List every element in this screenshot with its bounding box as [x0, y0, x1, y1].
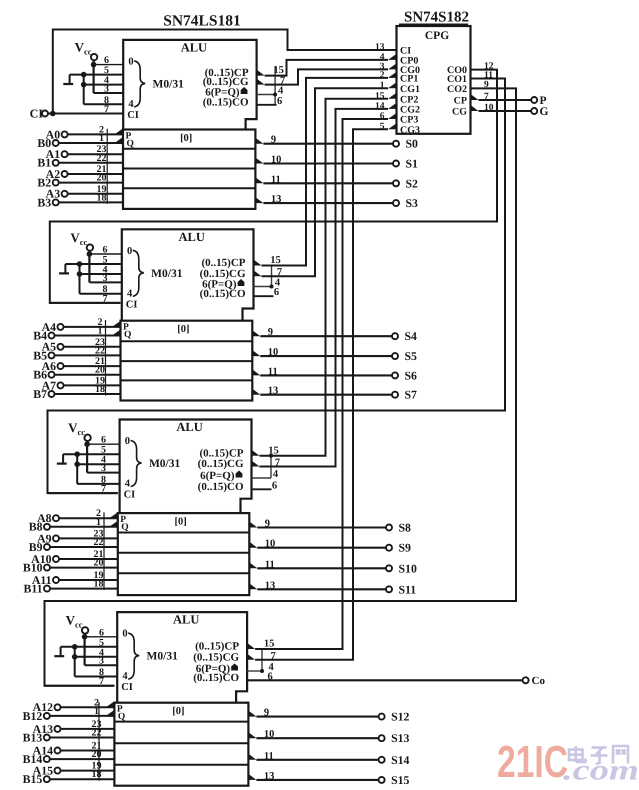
terminal A13 — [55, 726, 61, 732]
svg-text:1: 1 — [96, 517, 101, 528]
junction Vcc pin6 — [91, 62, 97, 68]
U4 wire pin4 — [75, 656, 118, 658]
svg-text:CP1: CP1 — [400, 74, 418, 85]
svg-text:S4: S4 — [405, 329, 418, 343]
U4 wire pin3 — [85, 664, 118, 666]
U2 wire pin7 CI from frame — [50, 302, 121, 304]
U3 wire pin4 — [77, 463, 119, 465]
U4 data box outline — [114, 703, 248, 786]
U4 pin4 junction dot — [260, 669, 264, 673]
svg-text:S15: S15 — [391, 773, 409, 787]
U4 output wedge row 3 — [248, 754, 256, 760]
svg-text:S10: S10 — [399, 561, 417, 575]
U1 data box outline — [123, 130, 255, 209]
svg-text:4: 4 — [125, 479, 131, 490]
svg-text:Vcc: Vcc — [68, 420, 85, 437]
svg-text:CG1: CG1 — [400, 84, 420, 95]
wire U4 row 1 to terminal S12 — [256, 716, 379, 718]
junction pin5 rail — [74, 451, 80, 457]
title underline — [399, 23, 468, 25]
U4 pin4 stub — [247, 670, 262, 672]
U4 digits column tick — [98, 702, 100, 781]
U2 output wedge row 4 — [252, 389, 260, 395]
U2 output wedge row 1 — [252, 330, 260, 336]
wire U4 row 2 to terminal S13 — [256, 737, 379, 739]
terminal B0 — [53, 140, 59, 146]
svg-text:4: 4 — [122, 671, 128, 682]
U2 data box divider 1 — [121, 340, 253, 342]
U4 data box divider 1 — [114, 721, 248, 723]
ground symbol U4 — [54, 655, 64, 657]
svg-text:S0: S0 — [406, 137, 419, 151]
wire A1 to U1 pin 23 — [67, 153, 123, 155]
U1 wire pin8 — [84, 103, 124, 105]
U2 Q input wedge — [112, 330, 121, 336]
wire CPG CG output to terminal G — [479, 110, 532, 112]
terminal S4 — [392, 333, 398, 339]
svg-text:[0]: [0] — [180, 133, 192, 144]
terminal P — [531, 97, 537, 103]
U2 pin4 riser — [271, 266, 273, 287]
svg-text:S11: S11 — [399, 582, 417, 596]
terminal B12 — [44, 713, 50, 719]
svg-text:[0]: [0] — [177, 324, 189, 335]
U3 pin4 riser — [270, 456, 272, 478]
CPG input wedge CP2 — [388, 93, 397, 99]
wire U1 row 1 to terminal S0 — [263, 143, 393, 145]
U4 gnd riser — [60, 647, 62, 656]
wire A9 to U3 pin 23 — [59, 537, 118, 539]
IC U4 ALU control box outline — [117, 612, 247, 703]
wire A7 to U2 pin 19 — [63, 384, 120, 386]
IC U2 ALU control box outline — [122, 229, 254, 320]
U2 wire pin6 — [89, 253, 121, 255]
wire A14 to U4 pin 21 — [60, 750, 114, 752]
svg-text:18: 18 — [92, 769, 102, 780]
terminal A10 — [53, 556, 59, 562]
U1 output wedge row 3 — [255, 177, 263, 183]
wire B2 to U1 pin 20 — [58, 182, 123, 184]
U3 pin4 junction dot — [269, 454, 273, 458]
terminal A8 — [53, 515, 59, 521]
wire B13 to U4 pin 22 — [49, 737, 114, 739]
wire A8 to U3 pin 2 — [59, 517, 118, 519]
terminal S15 — [379, 777, 385, 783]
terminal S0 — [393, 141, 399, 147]
CPG input wedge CG3 — [388, 123, 397, 129]
svg-text:22: 22 — [97, 153, 107, 164]
terminal A4 — [58, 324, 64, 330]
svg-text:18: 18 — [97, 192, 107, 203]
U2 Vcc rail vertical — [88, 251, 90, 283]
svg-text:(0..15)CO: (0..15)CO — [193, 672, 239, 684]
terminal B2 — [53, 180, 59, 186]
terminal A12 — [55, 704, 61, 710]
svg-text:S3: S3 — [406, 196, 419, 210]
terminal G — [531, 108, 537, 114]
wire U3 row 4 to terminal S11 — [257, 588, 386, 590]
terminal B3 — [53, 199, 59, 205]
wire A0 to U1 pin 2 — [67, 133, 123, 135]
U1 Q input wedge — [115, 137, 124, 143]
U1 pin4 stub — [257, 94, 276, 96]
svg-text:4: 4 — [127, 288, 133, 299]
svg-text:Q: Q — [118, 712, 125, 722]
svg-text:ALU: ALU — [173, 613, 199, 627]
U3 digits column tick — [103, 512, 105, 590]
U3 data box divider 2 — [118, 552, 250, 554]
U1 data box divider 2 — [123, 168, 255, 170]
svg-text:CI: CI — [121, 682, 133, 693]
svg-text:B12: B12 — [23, 709, 43, 723]
terminal S1 — [393, 161, 399, 167]
terminal A15 — [55, 768, 61, 774]
U2 second rail vertical — [79, 264, 81, 294]
wire CI terminal to ALU1 pin7 and CPG pin13 — [48, 113, 123, 115]
svg-text:22: 22 — [92, 728, 102, 739]
U2 P input wedge — [112, 321, 121, 327]
U2 wire pin4 — [80, 273, 122, 275]
wire B7 to U2 pin 18 — [54, 393, 120, 395]
svg-text:1: 1 — [98, 326, 103, 337]
U2 pin4 stub — [254, 286, 272, 288]
svg-text:7: 7 — [103, 293, 108, 304]
svg-text:S13: S13 — [391, 731, 409, 745]
svg-text:Vcc: Vcc — [75, 39, 92, 56]
wire CPG CO2 to ALU4 CI (net Cz) — [45, 88, 517, 685]
U1 gnd riser — [69, 75, 71, 84]
svg-text:(0..15)CO: (0..15)CO — [200, 288, 246, 300]
U3 data box outline — [118, 513, 250, 595]
wire U2 row 3 to terminal S6 — [260, 374, 392, 376]
U1 data box divider 3 — [123, 187, 255, 189]
svg-text:B7: B7 — [33, 387, 47, 401]
svg-text:22: 22 — [94, 537, 104, 548]
terminal S3 — [393, 200, 399, 206]
wire U2 CG to CPG CG1 — [262, 88, 389, 276]
svg-text:B15: B15 — [23, 772, 43, 786]
CPG input wedge CP0 — [388, 54, 397, 60]
svg-text:20: 20 — [95, 365, 105, 376]
U3 data box divider 1 — [118, 532, 250, 534]
wire A2 to U1 pin 21 — [67, 173, 123, 175]
U2 wire pin3 — [89, 281, 121, 283]
svg-text:6: 6 — [277, 96, 282, 107]
U1 CO stub — [257, 104, 277, 106]
svg-text:ALU: ALU — [178, 230, 204, 244]
U1 output wedge row 1 — [255, 138, 263, 144]
svg-text:CG3: CG3 — [400, 125, 420, 136]
svg-text:G: G — [540, 106, 549, 118]
svg-text:CI: CI — [30, 107, 44, 121]
U3 CG output wedge — [252, 461, 260, 467]
svg-text:CI: CI — [127, 110, 139, 121]
U2 wire pin8 — [80, 293, 122, 295]
U4 CP output wedge — [247, 643, 255, 649]
CPG output wedge — [471, 105, 479, 111]
terminal B15 — [44, 776, 50, 782]
U4 wire pin7 CI from frame — [45, 685, 115, 687]
U4 wire pin6 — [85, 636, 118, 638]
svg-text:B13: B13 — [23, 730, 43, 744]
wire A13 to U4 pin 23 — [60, 728, 114, 730]
wire B3 to U1 pin 18 — [58, 201, 123, 203]
terminal B10 — [44, 565, 50, 571]
U1 P=Q open-collector symbol — [241, 87, 248, 94]
wire U2 CP to CPG CP1 — [262, 78, 389, 266]
U2 data box outline — [121, 321, 253, 401]
svg-text:7: 7 — [99, 676, 104, 687]
CPG input wedge CP3 — [388, 113, 397, 119]
svg-text:1: 1 — [94, 706, 99, 717]
terminal A5 — [58, 344, 64, 350]
terminal S13 — [379, 735, 385, 741]
terminal S5 — [392, 353, 398, 359]
junction Vcc pin6 — [87, 251, 93, 257]
CPG input wedge CG1 — [388, 82, 397, 88]
CPG input wedge CG2 — [388, 103, 397, 109]
junction pin5 rail — [81, 72, 87, 78]
svg-text:22: 22 — [95, 345, 105, 356]
wire U4 CP to CPG CP3 — [255, 119, 388, 649]
wire A3 to U1 pin 19 — [67, 193, 123, 195]
terminal S12 — [379, 714, 385, 720]
U2 CP output wedge — [254, 260, 262, 266]
wire B0 to U1 pin 1 — [58, 142, 123, 144]
svg-text:CO2: CO2 — [447, 84, 467, 95]
wire U3 row 3 to terminal S10 — [257, 567, 386, 569]
svg-text:M0/31: M0/31 — [151, 268, 183, 280]
svg-text:3: 3 — [103, 273, 108, 284]
U4 Vcc terminal — [82, 627, 88, 633]
wire CPG CO0 to ALU2 CI (net Cx) — [50, 70, 497, 303]
CPG input wedge CP1 — [388, 72, 397, 78]
terminal S2 — [393, 180, 399, 186]
svg-text:Co: Co — [532, 675, 546, 687]
svg-text:15: 15 — [270, 255, 281, 266]
junction pin4 rail — [72, 654, 78, 660]
wire U4 row 3 to terminal S14 — [256, 759, 379, 761]
svg-text:Vcc: Vcc — [70, 230, 87, 247]
terminal A2 — [62, 171, 68, 177]
U4 CG output wedge — [247, 654, 255, 660]
terminal A6 — [58, 363, 64, 369]
U1 CG output wedge — [257, 79, 265, 85]
wire CPG CP output to terminal P — [479, 99, 532, 101]
U2 data box divider 2 — [121, 360, 253, 362]
svg-text:CI: CI — [126, 299, 138, 310]
wire A12 to U4 pin 2 — [60, 706, 114, 708]
U3 wire pin8 — [77, 483, 119, 485]
terminal A9 — [53, 535, 59, 541]
terminal CI (carry input) — [42, 111, 48, 117]
wire U4 CG to CPG CG3 — [255, 129, 388, 660]
U1 pin4 junction dot — [273, 93, 277, 97]
junction Vcc pin6 — [84, 441, 90, 447]
wire B1 to U1 pin 22 — [58, 162, 123, 164]
terminal B4 — [49, 333, 55, 339]
wire U3 CP to CPG CP2 — [260, 99, 389, 456]
svg-text:S8: S8 — [399, 521, 412, 535]
CPG output wedge — [471, 94, 479, 100]
terminal Co — [523, 677, 529, 683]
svg-text:20: 20 — [94, 558, 104, 569]
U3 data box divider 3 — [118, 572, 250, 574]
U1 wire pin3 — [94, 92, 124, 94]
svg-text:4: 4 — [273, 469, 279, 480]
wire U3 CG to CPG CG2 — [260, 109, 389, 467]
wire U1 CG to CPG CG0 — [265, 69, 388, 84]
svg-text:M0/31: M0/31 — [149, 458, 181, 470]
terminal S7 — [392, 392, 398, 398]
U2 output wedge row 3 — [252, 369, 260, 375]
U4 output wedge row 1 — [248, 711, 256, 717]
U4 P input wedge — [106, 701, 115, 707]
svg-text:SN74S182: SN74S182 — [404, 10, 469, 26]
wire A10 to U3 pin 21 — [59, 558, 118, 560]
ground symbol U3 — [57, 463, 67, 465]
wire B5 to U2 pin 22 — [54, 354, 120, 356]
U2 pin4 junction dot — [270, 285, 274, 289]
junction pin4 rail — [74, 461, 80, 467]
U4 second rail vertical — [74, 647, 76, 677]
U2 P=Q open-collector symbol — [238, 279, 245, 286]
watermark dianziwang (CJK strokes) — [569, 746, 586, 762]
svg-text:S7: S7 — [405, 388, 418, 402]
svg-text:0: 0 — [127, 246, 132, 257]
U3 CO stub — [252, 488, 272, 490]
U4 Q input wedge — [106, 710, 115, 716]
wire A11 to U3 pin 19 — [59, 579, 118, 581]
wire CI riser to CPG CI — [53, 30, 397, 114]
terminal B8 — [44, 524, 50, 530]
terminal A7 — [58, 382, 64, 388]
terminal B6 — [49, 372, 55, 378]
U1 wire pin4 — [84, 84, 124, 86]
svg-text:Vcc: Vcc — [66, 613, 83, 630]
svg-text:18: 18 — [95, 384, 105, 395]
U1 output wedge row 2 — [255, 158, 263, 164]
svg-text:4: 4 — [128, 99, 134, 110]
junction pin4 rail — [81, 82, 87, 88]
svg-text:M0/31: M0/31 — [147, 651, 179, 663]
wire A6 to U2 pin 21 — [63, 365, 120, 367]
U2 digits column tick — [105, 320, 107, 396]
U1 Vcc terminal — [91, 54, 97, 60]
U1 CP output wedge — [257, 70, 265, 76]
terminal S8 — [386, 525, 392, 531]
svg-text:S9: S9 — [399, 541, 412, 555]
U2 CO stub — [254, 295, 274, 297]
svg-text:SN74LS181: SN74LS181 — [163, 13, 241, 30]
terminal A1 — [62, 151, 68, 157]
junction pin5 rail — [77, 261, 83, 267]
terminal B5 — [49, 352, 55, 358]
svg-text:(0..15)CG: (0..15)CG — [193, 651, 239, 663]
wire U3 row 2 to terminal S9 — [257, 547, 386, 549]
U4 P=Q open-collector symbol — [231, 664, 238, 671]
ground symbol U1 — [63, 83, 73, 85]
U3 wire pin6 — [87, 443, 120, 445]
svg-text:[0]: [0] — [172, 706, 184, 717]
U2 wire pin5 (gnd) — [65, 263, 121, 265]
terminal A3 — [62, 191, 68, 197]
svg-text:20: 20 — [97, 173, 107, 184]
U2 output wedge row 2 — [252, 350, 260, 356]
svg-text:CI: CI — [124, 490, 136, 501]
wire B9 to U3 pin 22 — [50, 546, 118, 548]
wire A15 to U4 pin 19 — [60, 770, 114, 772]
svg-text:S1: S1 — [406, 157, 419, 171]
IC U3 ALU control box outline — [120, 420, 252, 514]
U3 output wedge row 4 — [249, 583, 257, 589]
svg-text:Q: Q — [127, 139, 134, 149]
U4 output wedge row 4 — [248, 774, 256, 780]
U3 Q input wedge — [109, 521, 118, 527]
junction pin4 rail — [77, 271, 83, 277]
wire CPG CO1 to ALU3 CI (net Cy) — [48, 79, 506, 494]
svg-text:CG: CG — [452, 106, 467, 117]
svg-text:3: 3 — [101, 463, 106, 474]
junction pin5 rail — [72, 644, 78, 650]
U3 output wedge row 1 — [249, 522, 257, 528]
U2 gnd riser — [64, 264, 66, 273]
svg-text:CPG: CPG — [425, 30, 449, 42]
svg-text:(0..15)CG: (0..15)CG — [198, 458, 244, 470]
U4 data box divider 2 — [114, 742, 248, 744]
U3 output wedge row 2 — [249, 542, 257, 548]
wire B11 to U3 pin 18 — [50, 588, 118, 590]
svg-text:3: 3 — [99, 656, 104, 667]
U3 CP output wedge — [252, 450, 260, 456]
terminal B7 — [49, 391, 55, 397]
terminal S14 — [379, 757, 385, 763]
terminal B13 — [44, 735, 50, 741]
U3 pin4 stub — [252, 477, 272, 479]
wire U1 row 3 to terminal S2 — [263, 182, 393, 184]
svg-text:B3: B3 — [37, 195, 51, 209]
U1 wire pin6 — [94, 64, 124, 66]
U4 pin4 riser — [261, 649, 263, 671]
terminal B9 — [44, 544, 50, 550]
terminal A14 — [55, 748, 61, 754]
U1 P input wedge — [115, 128, 124, 134]
terminal S9 — [386, 545, 392, 551]
U2 Vcc terminal — [87, 244, 93, 250]
U1 pin4 riser — [274, 66, 276, 104]
svg-text:6: 6 — [274, 287, 279, 298]
IC U5 CPG box outline — [397, 26, 471, 134]
svg-text:S14: S14 — [391, 753, 409, 767]
svg-text:S5: S5 — [405, 349, 418, 363]
svg-text:0: 0 — [128, 56, 133, 67]
svg-text:Q: Q — [124, 330, 131, 340]
svg-text:15: 15 — [264, 639, 275, 650]
junction CI — [50, 111, 56, 117]
svg-text:0: 0 — [122, 629, 127, 640]
wire B4 to U2 pin 1 — [54, 335, 120, 337]
wire U1 CP to CPG CP0 — [265, 60, 388, 76]
U4 data box divider 3 — [114, 764, 248, 766]
U1 second rail vertical — [83, 75, 85, 105]
U1 output wedge row 4 — [255, 197, 263, 203]
svg-text:21IC: 21IC — [497, 736, 568, 787]
U1 digits column tick — [106, 129, 108, 204]
U3 wire pin3 — [87, 472, 120, 474]
wire B14 to U4 pin 20 — [49, 758, 114, 760]
svg-text:7: 7 — [104, 104, 109, 115]
terminal B11 — [44, 586, 50, 592]
